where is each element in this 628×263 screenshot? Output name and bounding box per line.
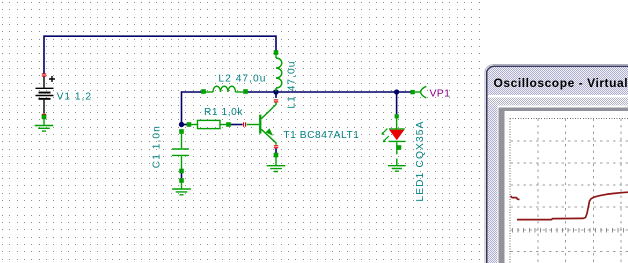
svg-text:R1 1,0k: R1 1,0k bbox=[204, 107, 243, 118]
svg-text:L2 47,0u: L2 47,0u bbox=[218, 74, 266, 85]
svg-text:VP1: VP1 bbox=[430, 88, 451, 100]
svg-text:T1 BC847ALT1: T1 BC847ALT1 bbox=[283, 130, 359, 141]
svg-text:C1 1,0n: C1 1,0n bbox=[152, 125, 163, 168]
svg-text:Oscilloscope - Virtual: Oscilloscope - Virtual bbox=[494, 76, 628, 90]
svg-text:L1 47,0u: L1 47,0u bbox=[287, 61, 298, 109]
svg-text:LED1 CQX35A: LED1 CQX35A bbox=[415, 120, 426, 201]
svg-text:V1 1,2: V1 1,2 bbox=[57, 91, 92, 102]
